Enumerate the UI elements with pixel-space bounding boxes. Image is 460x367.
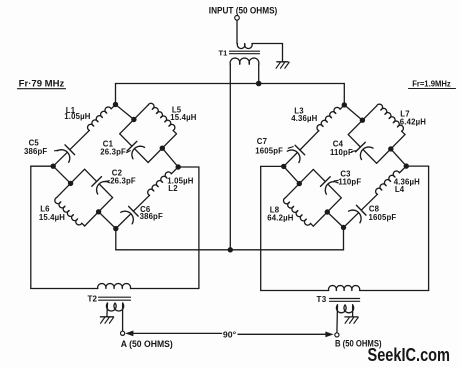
svg-text:C7: C7	[257, 137, 267, 146]
svg-text:26.3pF: 26.3pF	[110, 176, 136, 185]
svg-text:15.4µH: 15.4µH	[39, 213, 65, 222]
wire top node to rhombus	[344, 105, 362, 120]
wire T3 secondary to ground	[352, 305, 354, 317]
wire top node down-left	[340, 105, 344, 109]
wire capacitor to coil	[133, 195, 149, 211]
node bottom	[341, 225, 346, 230]
transformer T1 primary	[237, 44, 252, 49]
ground at T1	[276, 62, 289, 68]
inductor L2	[148, 172, 172, 195]
junction dot rhombus1 out	[388, 146, 393, 151]
svg-text:110pF: 110pF	[330, 148, 353, 157]
inductor L8	[284, 198, 311, 225]
svg-text:1.05µH: 1.05µH	[64, 112, 90, 121]
wire coil tail to E corner	[173, 130, 176, 133]
leader to C5	[55, 149, 61, 152]
svg-text:15.4µH: 15.4µH	[170, 113, 196, 122]
svg-text:SeekIC.com: SeekIC.com	[368, 344, 451, 365]
right lattice right rail up	[428, 166, 430, 290]
leader to C2	[105, 180, 110, 183]
wire bus to right lattice top	[343, 84, 345, 105]
inductor L5	[148, 103, 175, 130]
wire coil tail to E corner	[402, 131, 405, 134]
svg-text:L2: L2	[168, 184, 178, 193]
svg-text:INPUT (50 OHMS): INPUT (50 OHMS)	[209, 6, 277, 16]
wire T1 sec right to bus	[258, 64, 260, 83]
arrowhead at B	[325, 332, 333, 338]
capacitor C5	[57, 145, 74, 162]
transformer T3 primary	[328, 286, 359, 291]
svg-text:Fr=1.9MHz: Fr=1.9MHz	[412, 79, 451, 88]
svg-text:L4: L4	[395, 185, 405, 194]
svg-text:110pF: 110pF	[338, 178, 361, 187]
bottom tie wire	[116, 249, 344, 251]
wire capacitor to coil	[361, 194, 377, 210]
left rail down	[30, 166, 32, 288]
top bus wire	[116, 83, 345, 85]
T2 core	[99, 296, 131, 298]
wire capacitor to S corner	[364, 150, 377, 163]
node top	[342, 102, 347, 107]
wire bottom node to capacitor	[344, 213, 359, 227]
leader to C7	[288, 147, 293, 149]
svg-text:A (50 OHMS): A (50 OHMS)	[121, 339, 173, 349]
right lattice left rail down	[260, 166, 262, 290]
svg-text:Fr·79 MHz: Fr·79 MHz	[19, 79, 65, 89]
wire T2 secondary to terminal A	[122, 303, 124, 331]
wire rhombus1 edge W-N	[348, 106, 376, 135]
wire W corner to capacitor	[348, 135, 360, 147]
wire rhombus2 edge W-N	[285, 169, 313, 197]
wire top node to rhombus	[116, 105, 134, 120]
capacitor C8	[349, 205, 366, 223]
right rail up	[198, 167, 200, 289]
wire bus to left lattice top	[115, 84, 117, 105]
wire capacitor to left node	[53, 153, 67, 166]
wire rhombus2 to bottom node	[99, 212, 116, 229]
junction dot rhombus1 out	[160, 146, 165, 151]
wire rhombus2 edge W-N	[57, 169, 85, 197]
svg-text:1605pF: 1605pF	[255, 147, 283, 156]
wire right-lattice left node to rail	[261, 165, 284, 167]
wire rhombus1 edge E-S	[148, 134, 176, 163]
capacitor C2	[92, 177, 109, 194]
inductor L1	[88, 107, 112, 130]
wire rhombus1 to right node	[391, 149, 407, 166]
wire rhombus2 edge E-S	[85, 198, 113, 226]
wire left node to rhombus2	[284, 166, 300, 183]
wire rhombus1 to right node	[162, 148, 178, 167]
svg-text:4.36µH: 4.36µH	[291, 114, 317, 123]
capacitor C1	[127, 141, 144, 158]
transformer T2 primary	[98, 284, 131, 289]
node left	[281, 164, 286, 169]
ground at T3	[345, 317, 358, 323]
svg-text:T2: T2	[88, 295, 98, 304]
svg-text:T3: T3	[317, 295, 327, 304]
node top	[113, 102, 118, 107]
wire W corner to capacitor	[120, 134, 132, 146]
wire capacitor to E corner	[100, 185, 113, 198]
wire T1 sec left to bottom junction	[229, 64, 231, 250]
wire T2 secondary to ground	[106, 303, 109, 317]
wire input to T1	[236, 20, 238, 43]
wire bottom node to capacitor	[116, 214, 131, 228]
wire N corner to capacitor	[85, 169, 97, 181]
svg-text:90°: 90°	[223, 329, 236, 339]
svg-text:386pF: 386pF	[140, 212, 163, 221]
wire coil tail to S corner	[311, 223, 314, 226]
node left	[51, 164, 56, 169]
svg-text:64.2µH: 64.2µH	[267, 214, 293, 223]
transformer T3 secondary	[336, 305, 353, 313]
wire T3 to right rail	[360, 290, 429, 292]
terminal A	[121, 331, 125, 335]
wire coil to capacitor	[300, 131, 319, 150]
wire left node to left rail	[31, 165, 53, 167]
wire capacitor to S corner	[135, 149, 148, 162]
wire capacitor to left node	[284, 153, 297, 166]
leader to C3	[334, 179, 338, 182]
capacitor C7	[287, 145, 304, 162]
wire rail to right node	[406, 165, 428, 167]
node bottom	[113, 226, 118, 231]
inductor L6	[55, 198, 82, 225]
leader to C4	[352, 151, 357, 152]
wire right rail to right node	[178, 166, 199, 168]
wire capacitor to E corner	[328, 185, 341, 198]
wire rhombus1 edge W-N	[120, 105, 148, 134]
junction dot rhombus2 in	[297, 181, 302, 186]
svg-text:T1: T1	[219, 48, 228, 57]
wire N corner to capacitor	[313, 169, 325, 181]
wire rail to T3	[261, 290, 329, 292]
leader to C1	[127, 151, 131, 153]
wire rhombus1 edge E-S	[377, 135, 405, 164]
wire left bottom node down	[115, 229, 117, 250]
junction dot rhombus2 out	[325, 209, 330, 214]
svg-text:386pF: 386pF	[24, 147, 47, 156]
junction dot center tap	[228, 247, 233, 252]
svg-text:L6: L6	[40, 204, 50, 213]
wire rhombus2 to bottom node	[327, 212, 343, 228]
wire coil to capacitor	[70, 130, 90, 149]
wire T3 secondary to terminal B	[336, 305, 339, 333]
svg-text:26.3pF: 26.3pF	[100, 148, 126, 157]
junction dot rhombus2 out	[96, 209, 101, 214]
terminal B	[335, 333, 339, 337]
wire rhombus2 edge E-S	[313, 198, 341, 226]
wire rail to T2	[31, 288, 98, 290]
inductor L3	[317, 107, 340, 130]
phase wire right	[238, 333, 329, 335]
arrowhead at A	[125, 331, 133, 337]
wire T1 primary to ground	[252, 43, 283, 45]
node right	[404, 163, 409, 168]
phase wire left	[133, 332, 222, 334]
wire coil to right node	[399, 166, 406, 173]
input terminal	[235, 15, 240, 20]
junction dot rhombus2 in	[68, 181, 73, 186]
wire right bottom node down	[343, 228, 345, 250]
svg-text:1605pF: 1605pF	[369, 213, 397, 222]
wire left node to rhombus2	[53, 166, 70, 183]
svg-text:6.42µH: 6.42µH	[400, 117, 426, 126]
wire T2 to right rail	[131, 288, 199, 290]
transformer T1 secondary	[230, 58, 259, 64]
inductor L4	[376, 171, 400, 194]
T1 core	[230, 50, 260, 52]
wire coil to right node	[171, 167, 178, 174]
transformer T2 secondary	[106, 303, 123, 311]
capacitor C6	[121, 206, 138, 223]
ground at T2	[100, 317, 113, 323]
wire top node down-left	[111, 105, 115, 109]
T3 core	[330, 298, 360, 300]
wire coil tail to S corner	[82, 223, 85, 226]
capacitor C3	[321, 177, 338, 194]
junction dot rhombus1 in	[131, 117, 136, 122]
capacitor C4	[356, 142, 373, 159]
inductor L7	[377, 104, 404, 131]
junction dot rhombus1 in	[360, 118, 365, 123]
node dot T1-bus	[256, 81, 262, 87]
node right	[176, 164, 181, 169]
